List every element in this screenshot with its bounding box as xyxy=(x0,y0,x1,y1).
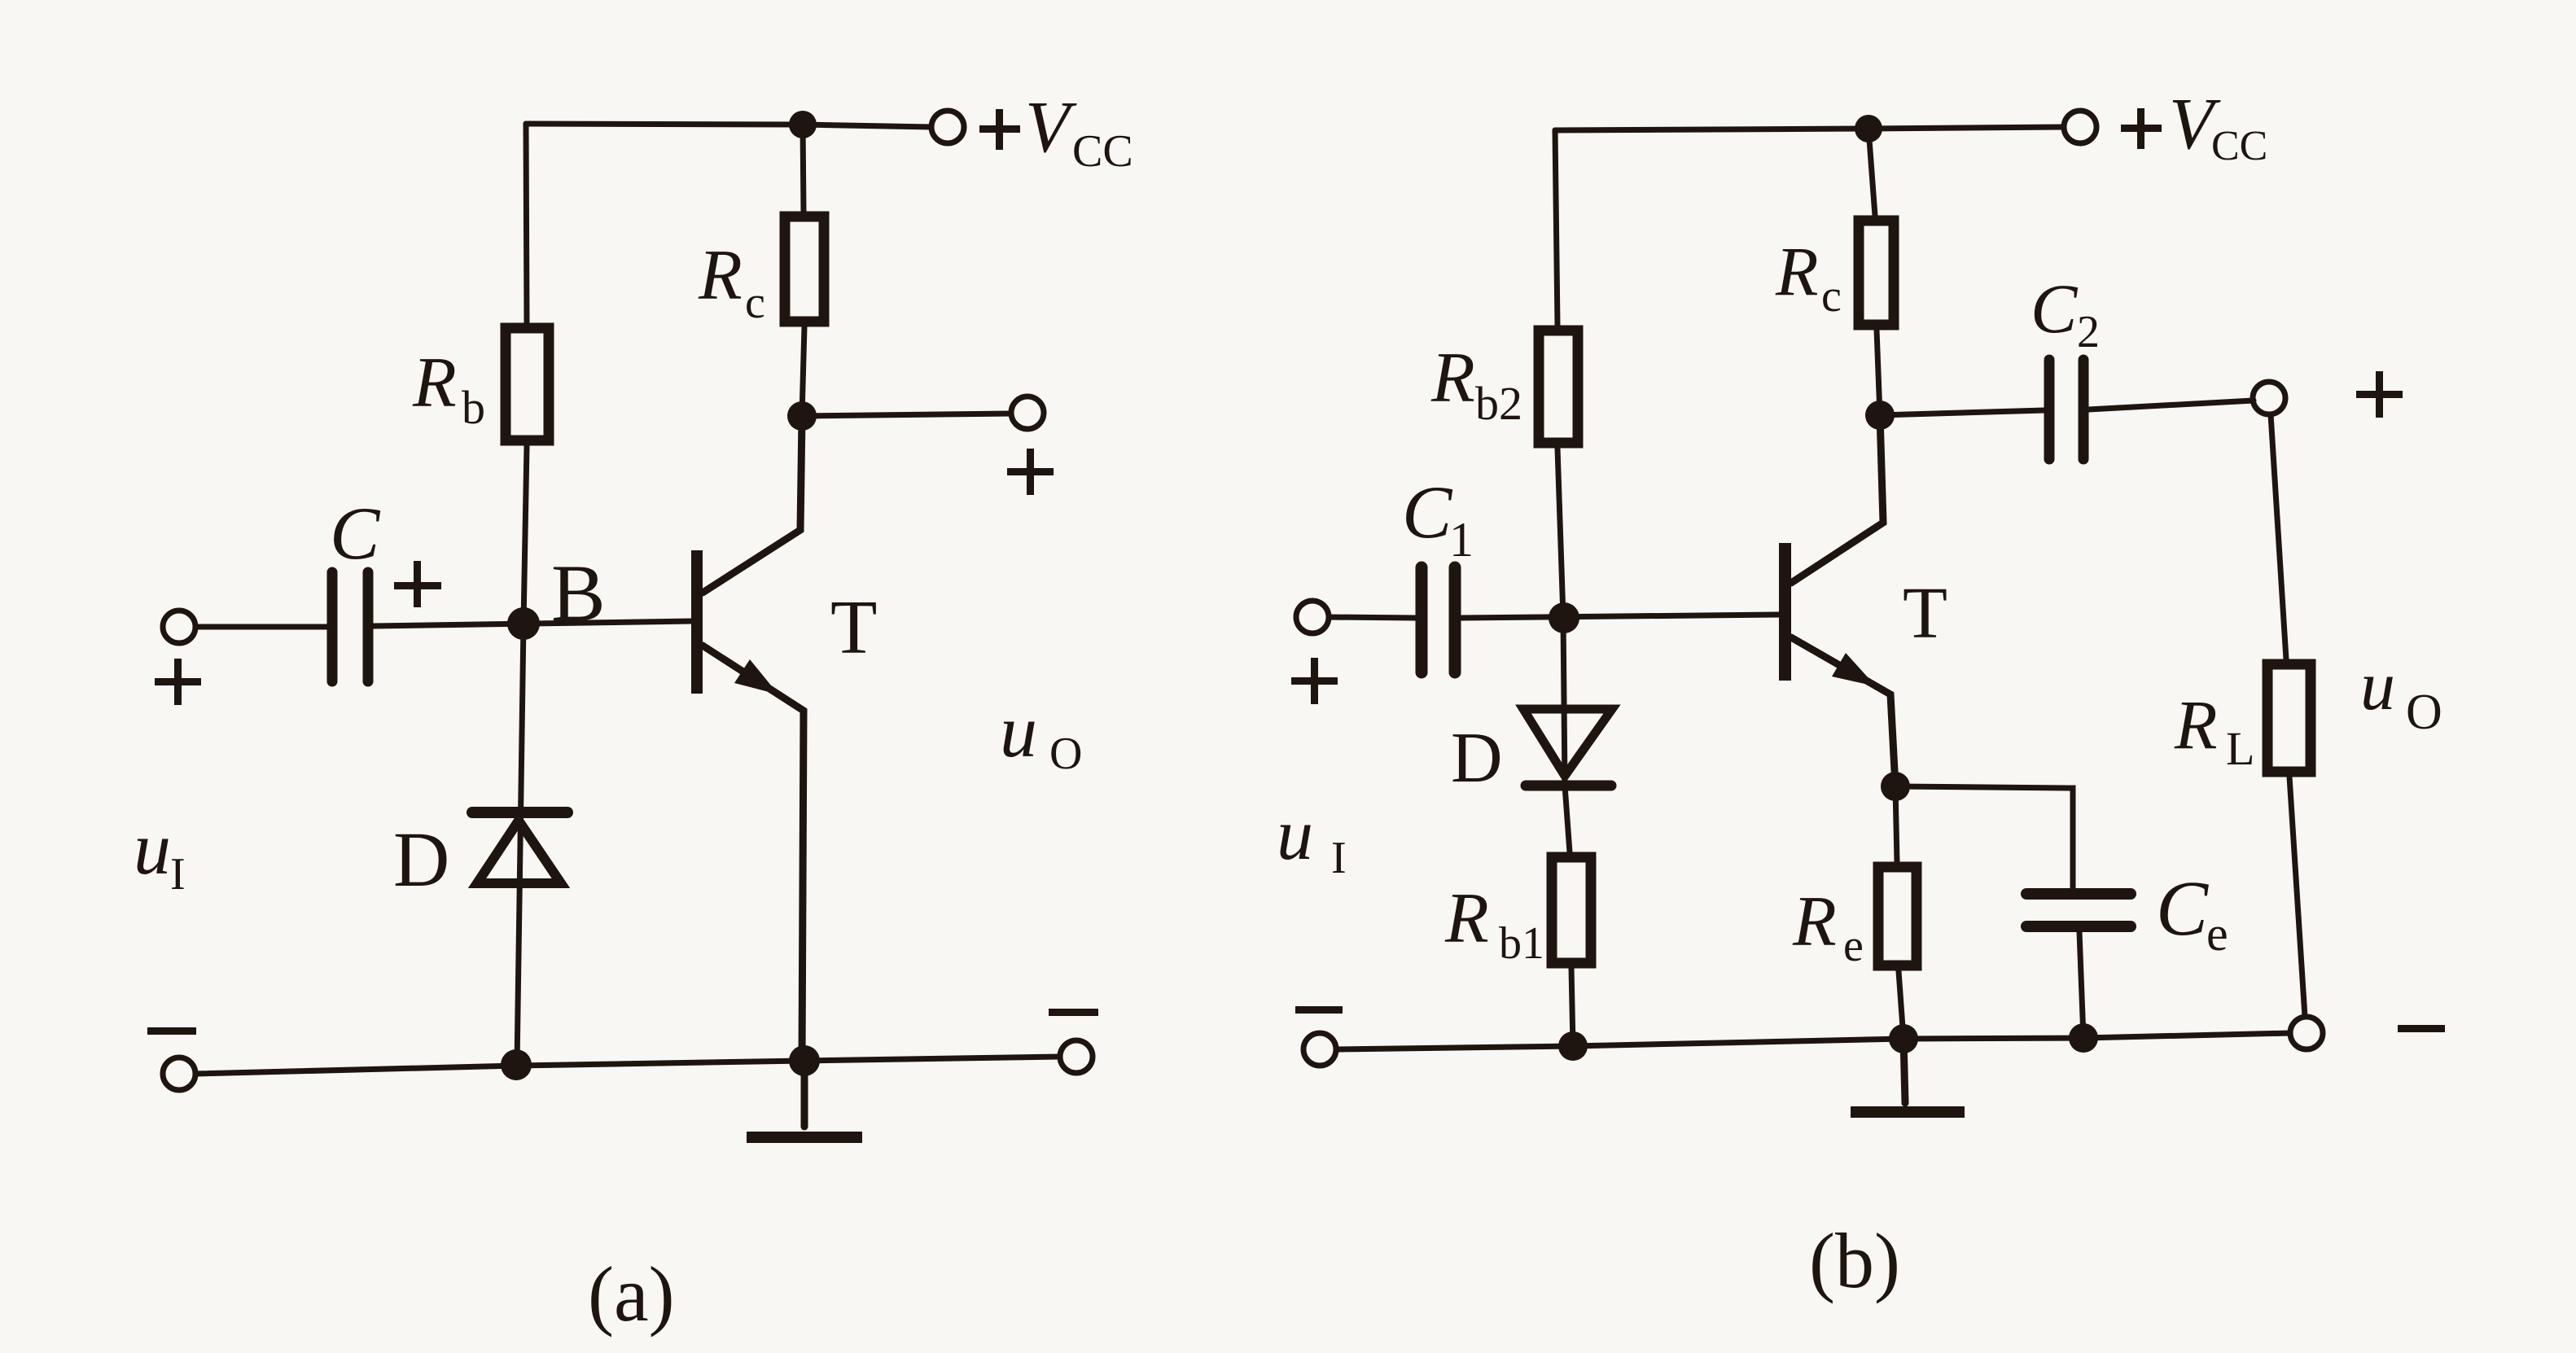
wire base node to diode to Rb1 (b) xyxy=(1563,618,1570,852)
svg-text:V: V xyxy=(1025,87,1077,168)
label RL (b) xyxy=(2174,685,2254,775)
label + input (b) xyxy=(1291,658,1338,704)
wire Rb branch top (a) xyxy=(526,124,527,323)
transistor T (b) base bar xyxy=(1779,543,1791,681)
label Rc (a) xyxy=(698,236,765,328)
node emitter-ground (a) xyxy=(789,1045,820,1076)
terminal input (a) xyxy=(163,611,195,643)
wire input to capacitor C (a) xyxy=(195,624,326,630)
resistor Rc (a) xyxy=(785,217,824,322)
svg-text:R: R xyxy=(1444,879,1489,958)
label + output (b) xyxy=(2356,371,2403,418)
transistor T (a) emitter xyxy=(703,646,804,1061)
terminal output (a) xyxy=(1011,396,1044,429)
wire bottom rail (a) xyxy=(196,1057,1059,1074)
wire Rb to node B xyxy=(524,446,527,624)
terminal bottom-right (b) xyxy=(2290,1017,2323,1049)
node junction Vcc rail (a) xyxy=(789,111,817,138)
label minus bottom-left (b) xyxy=(1295,1006,1343,1014)
transistor T (b) collector xyxy=(1791,415,1883,583)
label Rb2 (b) xyxy=(1430,339,1522,430)
svg-text:(a): (a) xyxy=(588,1250,675,1338)
terminal bottom-left (b) xyxy=(1303,1033,1336,1066)
svg-text:CC: CC xyxy=(1072,126,1133,177)
terminal output (b) xyxy=(2253,382,2285,414)
wire Rc to collector node xyxy=(802,326,804,416)
svg-text:C: C xyxy=(1402,471,1453,554)
label + near C (a) xyxy=(394,561,441,607)
resistor RL (b) xyxy=(2267,664,2311,772)
wire top rail (b) xyxy=(1555,127,2064,130)
svg-text:T: T xyxy=(830,585,877,670)
wire emitter node to Ce (b) xyxy=(1895,786,2073,889)
capacitor C (a) xyxy=(332,572,368,681)
wire collector node to output terminal (a) xyxy=(802,414,1011,416)
wire Rb1 to bottom rail (b) xyxy=(1571,968,1573,1046)
terminal +Vcc (b) xyxy=(2064,111,2096,143)
svg-text:u: u xyxy=(134,807,171,890)
resistor Rc (b) xyxy=(1859,221,1894,325)
svg-text:u: u xyxy=(1277,795,1313,875)
node diode-ground (a) xyxy=(501,1049,532,1080)
svg-text:2: 2 xyxy=(2077,307,2100,357)
label Rb (a) xyxy=(412,344,485,434)
wire Vcc rail to Rc (b) xyxy=(1868,129,1875,216)
svg-text:e: e xyxy=(1843,921,1864,971)
svg-text:c: c xyxy=(1821,271,1842,322)
node collector (a) xyxy=(787,401,817,431)
svg-text:L: L xyxy=(2226,722,2254,775)
wire base line (a) xyxy=(374,621,691,626)
svg-text:T: T xyxy=(1903,573,1947,654)
wire Re to bottom rail (b) xyxy=(1899,971,1904,1039)
svg-text:R: R xyxy=(1430,339,1475,418)
label + input (a) xyxy=(155,659,201,705)
transistor T (a) emitter arrow xyxy=(734,659,778,694)
wire RL to bottom terminal (b) xyxy=(2289,777,2305,1017)
wire Ce to bottom rail (b) xyxy=(2079,932,2083,1038)
svg-text:O: O xyxy=(1049,729,1082,779)
wire collector node to C2 (b) xyxy=(1880,410,2044,415)
wire Vcc rail to Rc xyxy=(803,125,804,212)
capacitor C1 (b) xyxy=(1422,567,1455,672)
terminal input (b) xyxy=(1296,601,1329,633)
svg-text:C: C xyxy=(2156,865,2209,952)
resistor Rb (a) xyxy=(506,328,549,440)
node Rb1-rail (b) xyxy=(1558,1031,1588,1061)
svg-text:R: R xyxy=(1775,232,1819,310)
transistor T (b) emitter arrow xyxy=(1832,653,1876,686)
svg-text:R: R xyxy=(2174,685,2218,764)
label C1 (b) xyxy=(1402,471,1474,567)
label C2 (b) xyxy=(2031,269,2100,357)
node Re-rail (b) xyxy=(1889,1024,1918,1053)
label minus bottom-left (a) xyxy=(147,1027,196,1035)
wire C2 to output terminal (b) xyxy=(2088,401,2254,409)
svg-text:D: D xyxy=(393,816,449,903)
svg-text:R: R xyxy=(412,344,457,423)
svg-text:I: I xyxy=(170,849,186,900)
terminal bottom-right (a) xyxy=(1060,1040,1093,1073)
label + output (a) xyxy=(1007,449,1054,495)
resistor Rb2 (b) xyxy=(1539,331,1578,443)
capacitor C2 (b) xyxy=(2049,360,2083,459)
terminal bottom-left (a) xyxy=(163,1057,195,1090)
wire Rc to collector node (b) xyxy=(1877,330,1880,415)
node B (a) xyxy=(507,607,540,640)
label uI (b) xyxy=(1277,795,1347,883)
wire input to C1 (b) xyxy=(1329,617,1415,618)
svg-text:1: 1 xyxy=(1449,513,1474,567)
node Ce-rail (b) xyxy=(2069,1023,2098,1053)
label uO (b) xyxy=(2360,646,2442,740)
ground (a) xyxy=(747,1061,862,1143)
label Rc (b) xyxy=(1775,232,1842,322)
svg-text:u: u xyxy=(1000,690,1037,773)
wire Rb2 to base node (b) xyxy=(1557,449,1563,617)
label uI (a) xyxy=(134,807,186,900)
svg-text:b1: b1 xyxy=(1499,918,1544,969)
node emitter (b) xyxy=(1881,772,1910,801)
label minus bottom-right (a) xyxy=(1049,1009,1098,1016)
wire node B to diode and ground rail (a) xyxy=(517,624,524,1065)
svg-text:(b): (b) xyxy=(1809,1217,1900,1304)
svg-text:b2: b2 xyxy=(1475,377,1522,430)
svg-text:c: c xyxy=(745,278,765,328)
wire bottom rail (b) xyxy=(1337,1033,2290,1049)
diode D (a) triangle xyxy=(477,821,561,883)
svg-text:C: C xyxy=(2031,269,2079,348)
resistor Rb1 (b) xyxy=(1552,857,1591,963)
node collector (b) xyxy=(1865,401,1895,430)
svg-text:R: R xyxy=(698,236,743,315)
svg-text:O: O xyxy=(2406,685,2442,740)
svg-text:u: u xyxy=(2360,646,2395,725)
wire output terminal to RL (b) xyxy=(2271,414,2286,659)
svg-text:e: e xyxy=(2206,907,2228,961)
wire base line (b) xyxy=(1461,615,1779,618)
label minus bottom-right (b) xyxy=(2398,1025,2445,1032)
wire top rail (a) xyxy=(526,124,931,127)
svg-text:C: C xyxy=(330,492,381,575)
svg-text:B: B xyxy=(551,548,606,638)
label Rb1 (b) xyxy=(1444,879,1544,969)
diode D (a) cathode bar xyxy=(472,807,567,818)
ground (b) xyxy=(1851,1039,1965,1118)
wire Rb2 branch top (b) xyxy=(1555,130,1557,326)
resistor Re (b) xyxy=(1878,867,1917,965)
svg-text:R: R xyxy=(1792,882,1837,961)
svg-text:I: I xyxy=(1331,833,1347,883)
diode D (b) cathode bar xyxy=(1526,781,1611,791)
label uO (a) xyxy=(1000,690,1082,779)
svg-text:CC: CC xyxy=(2211,123,2267,169)
label Ce (b) xyxy=(2156,865,2228,961)
transistor T (b) emitter xyxy=(1791,637,1895,786)
label +Vcc (a) xyxy=(979,87,1133,177)
diode D (b) triangle xyxy=(1523,709,1612,776)
label Re (b) xyxy=(1792,882,1864,971)
transistor T (a) base bar xyxy=(691,550,703,694)
svg-text:b: b xyxy=(462,381,485,434)
capacitor Ce (b) xyxy=(2026,894,2131,926)
terminal +Vcc (a) xyxy=(931,111,964,143)
wire emitter node to Re (b) xyxy=(1895,786,1897,862)
node base (b) xyxy=(1549,602,1579,633)
node junction Vcc rail (b) xyxy=(1855,115,1882,142)
transistor T (a) collector xyxy=(703,418,802,593)
svg-text:D: D xyxy=(1451,719,1503,798)
label +Vcc (b) xyxy=(2121,84,2267,169)
